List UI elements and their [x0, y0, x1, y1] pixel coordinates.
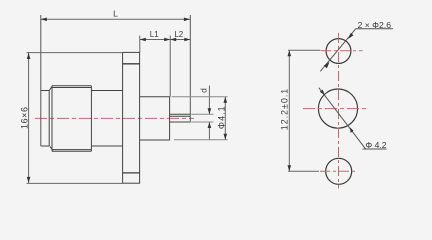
- flange plate: [123, 52, 140, 183]
- ring (interface bushing): [41, 91, 49, 147]
- nut chamfer bottom: [50, 146, 53, 150]
- hole circle top (phi2.6): [326, 39, 351, 64]
- dimension L: [41, 18, 190, 20]
- flange inner line bottom: [123, 172, 140, 174]
- leader 2xPhi2.6: [320, 29, 355, 72]
- svg-text:d: d: [198, 88, 208, 93]
- wire: extension line insulator right: [169, 36, 171, 97]
- flange inner line top: [123, 63, 140, 65]
- svg-text:Φ 4.2: Φ 4.2: [365, 140, 386, 150]
- red vertical centerline right view: [338, 33, 340, 189]
- wire: top hole extension: [288, 49, 321, 51]
- svg-text:2 × Φ2.6: 2 × Φ2.6: [358, 20, 392, 30]
- red horizontal centerline middle circle: [303, 108, 366, 110]
- wire: right extension line / pin tip: [189, 15, 191, 122]
- hole circle middle (phi4.2): [318, 89, 357, 128]
- red horizontal centerline bottom circle: [320, 170, 355, 172]
- svg-text:16×6: 16×6: [19, 106, 29, 128]
- barrel: [91, 91, 122, 147]
- svg-text:L: L: [113, 9, 118, 19]
- svg-text:Φ4.1: Φ4.1: [216, 105, 226, 129]
- dimension phi4.1: [224, 97, 226, 140]
- center pin: [170, 114, 191, 122]
- centerline (left view axis): [35, 117, 194, 119]
- dimension d: [208, 86, 210, 141]
- insulator: [140, 97, 170, 140]
- wire: left extension line / ring left edge: [40, 15, 42, 146]
- wire: extension line flange right: [139, 36, 141, 53]
- wire: insulator bottom extension: [174, 139, 228, 141]
- svg-text:12.2±0.1: 12.2±0.1: [280, 88, 290, 131]
- nut chamfer top: [49, 86, 52, 90]
- wire: insulator top extension: [172, 96, 228, 98]
- wire: bottom hole extension: [288, 170, 319, 172]
- dimension 12.2+-0.1: [288, 50, 290, 171]
- dimension 16x6: [28, 53, 30, 183]
- svg-text:L1: L1: [150, 30, 159, 39]
- svg-text:L2: L2: [174, 30, 183, 39]
- wire: top extension to flange: [27, 52, 123, 54]
- red horizontal centerline top circle: [321, 50, 363, 52]
- wire: bottom extension to flange: [27, 182, 123, 184]
- dimension L1: [140, 39, 170, 41]
- wire: pin bottom extension: [191, 121, 213, 123]
- hole circle bottom (phi2.6): [326, 158, 352, 184]
- hex nut body: [52, 86, 91, 152]
- leader Phi4.2: [319, 88, 366, 149]
- dimension L2: [170, 39, 190, 41]
- wire: pin top extension: [191, 113, 213, 115]
